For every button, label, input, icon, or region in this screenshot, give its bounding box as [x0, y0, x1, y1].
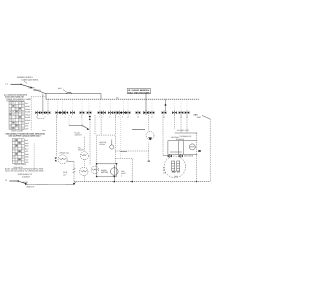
wire x82 drop	[81, 115, 83, 125]
node L1 terminal	[6, 82, 21, 85]
wire motor to rail	[114, 177, 116, 183]
connector P7	[70, 111, 75, 115]
wire drop to connector x174.5	[174, 99, 176, 111]
svg-text:COLOR CODE: COLOR CODE	[14, 163, 27, 166]
wire box feeds	[95, 115, 115, 135]
color code cell texture	[13, 140, 24, 163]
wire neutral rail main	[74, 181, 210, 183]
svg-text:SEE NOTE: SEE NOTE	[184, 154, 194, 157]
svg-text:2: 2	[45, 116, 46, 119]
svg-text:8: 8	[110, 116, 111, 119]
wire drop to connector x82	[81, 99, 83, 111]
connector P9	[87, 111, 92, 115]
motor top wires	[170, 152, 194, 157]
wire neutral rail left	[27, 183, 74, 185]
water valve label	[63, 169, 75, 177]
svg-text:RINSE: RINSE	[25, 111, 31, 114]
svg-text:12: 12	[163, 116, 165, 119]
connector P13	[114, 111, 119, 115]
wire drop to connector x152	[151, 99, 153, 111]
svg-text:RINSE: RINSE	[25, 116, 31, 119]
timer chart row labels	[25, 102, 31, 130]
wire drop to connector x57.8	[57, 99, 59, 111]
svg-text:MUST BE GROUNDED TO GREEN GND: MUST BE GROUNDED TO GREEN GND WIRE	[5, 170, 44, 173]
wire x120.8 drop	[120, 115, 122, 159]
ground mark right	[198, 150, 201, 152]
relay coil K1	[110, 140, 114, 150]
svg-text:10: 10	[127, 116, 129, 119]
svg-text:SWITCH: SWITCH	[26, 185, 34, 188]
heater circuit drops	[163, 115, 187, 156]
node N terminal	[5, 179, 18, 182]
svg-text:DOOR: DOOR	[22, 181, 29, 184]
heater sub box	[168, 141, 197, 155]
svg-text:FILL: FILL	[25, 102, 28, 105]
wire drop to connector x72.5	[72, 99, 74, 111]
wire neutral rail step	[74, 182, 76, 185]
wire right edge drop	[202, 116, 210, 182]
connector P26 inline	[89, 116, 91, 120]
wire drop to connector x187	[186, 99, 188, 111]
svg-text:OFF: OFF	[25, 127, 28, 130]
node L1 power supply cord label	[17, 76, 39, 84]
svg-text:DRAIN: DRAIN	[25, 119, 31, 122]
connector P6	[64, 111, 69, 115]
connector P16	[126, 111, 131, 115]
svg-text:7: 7	[103, 116, 104, 119]
float switch label	[75, 131, 83, 136]
connector P1	[35, 111, 40, 115]
node TB label	[116, 97, 119, 100]
connector P25	[179, 154, 183, 158]
timer label box U1	[127, 89, 150, 95]
thermostat labels	[171, 135, 192, 141]
wire drop to connector x89	[88, 99, 90, 111]
note text block top-left	[4, 94, 28, 99]
svg-text:SWITCH: SWITCH	[75, 134, 83, 137]
connector pin labels	[36, 116, 188, 119]
connector P20	[162, 111, 167, 115]
connector P3	[46, 111, 51, 115]
svg-text:USE COPPER CONDUCTORS ONLY: USE COPPER CONDUCTORS ONLY	[9, 134, 42, 137]
wire drop to connector x38	[42, 94, 44, 111]
motor run winding M2	[111, 165, 119, 178]
color code cell marks	[16, 139, 21, 160]
svg-text:INCREMENTS SHOWN: INCREMENTS SHOWN	[7, 100, 26, 103]
wire drop to connector x123.3	[122, 99, 124, 111]
svg-text:CABINET: CABINET	[22, 175, 31, 178]
color code row labels	[25, 139, 30, 164]
connector P12	[108, 111, 113, 115]
connector P22	[179, 111, 184, 115]
pump motor M3	[164, 156, 186, 178]
svg-text:HAS THIS FEATURE: HAS THIS FEATURE	[128, 91, 150, 94]
dispenser label line	[132, 129, 145, 131]
wire connector P1 tail	[38, 115, 44, 119]
mark y151.6	[120, 151, 127, 153]
wire drop to connector x46	[47, 99, 49, 111]
float switch S3	[69, 125, 89, 130]
wire color code table	[12, 139, 24, 164]
connector P14	[117, 111, 122, 115]
color code caption	[14, 163, 27, 169]
svg-text:YEL: YEL	[25, 150, 28, 153]
svg-text:MOT 1/3: MOT 1/3	[172, 170, 181, 173]
motor box inner	[96, 163, 118, 177]
wire fill valve to wash solenoid	[84, 159, 86, 167]
wire drop to connector x110.5	[110, 99, 112, 111]
note text bottom-left	[5, 167, 45, 178]
connector P27 drain	[55, 158, 57, 162]
svg-text:VALVE: VALVE	[78, 149, 84, 152]
wire drop to connector x128	[127, 99, 129, 111]
svg-text:GND: GND	[197, 116, 202, 119]
connector P10	[98, 111, 103, 115]
svg-text:7: 7	[99, 116, 100, 119]
connector P4	[56, 111, 61, 115]
thermal cutoff TCO	[66, 92, 72, 94]
thermal cutoff TCO label	[58, 87, 67, 92]
dispenser drop	[148, 115, 150, 132]
wire neutral bus	[46, 94, 199, 100]
svg-text:4: 4	[65, 116, 66, 119]
wire y158.7	[115, 158, 132, 160]
wire drop to connector x62.5	[62, 99, 64, 111]
connector P11	[101, 111, 106, 115]
wire right vertical	[196, 133, 197, 182]
svg-text:DRAIN: DRAIN	[25, 113, 31, 116]
svg-text:TIMER CHART: TIMER CHART	[11, 129, 24, 132]
heater text row	[177, 129, 190, 132]
wire drop to connector x181	[180, 99, 182, 111]
svg-text:MOTOR: MOTOR	[101, 171, 109, 174]
svg-text:11: 11	[151, 116, 153, 119]
connector P21	[172, 111, 177, 115]
wire to fill valve	[83, 137, 85, 151]
wire dispenser down	[148, 143, 150, 162]
wire drop junction x165.5	[165, 99, 167, 111]
connector P19	[150, 111, 155, 115]
connector P5	[60, 111, 65, 115]
wash solenoid L4	[80, 167, 88, 175]
drain solenoid L1	[58, 155, 67, 164]
relay label	[100, 141, 107, 146]
svg-text:HI-LIMIT STAT: HI-LIMIT STAT	[177, 129, 190, 132]
connector P8	[80, 111, 85, 115]
svg-text:1: 1	[36, 116, 37, 119]
timer sequence chart table	[9, 102, 24, 130]
timer chart cell texture	[10, 103, 24, 129]
svg-text:9: 9	[122, 116, 123, 119]
door switch S2 (neutral side)	[17, 180, 34, 188]
float switch drop	[68, 115, 70, 125]
warning text block	[6, 132, 46, 137]
wire relay to right	[115, 150, 148, 152]
timer chart header text	[6, 98, 32, 103]
svg-text:WHT: WHT	[25, 142, 29, 145]
connector P15	[121, 111, 126, 115]
svg-text:10: 10	[137, 116, 139, 119]
wire door switch to bus	[34, 89, 46, 93]
connector P18 (timer feed)	[143, 110, 148, 115]
wire timer box drop	[145, 94, 147, 111]
timer chart cell marks	[9, 105, 21, 129]
door switch S1	[20, 84, 41, 92]
connector P24	[168, 154, 172, 158]
wire ground route lower	[33, 144, 35, 173]
svg-text:DRAIN: DRAIN	[25, 108, 31, 111]
heater wire y133	[175, 132, 198, 134]
pump motor label	[172, 170, 181, 178]
motor label dark	[101, 169, 109, 174]
svg-text:DRAIN SOL: DRAIN SOL	[60, 152, 70, 155]
heater label right	[194, 113, 202, 119]
motor side text	[163, 167, 166, 175]
wire drain to rail	[67, 161, 75, 185]
wire ground route upper	[31, 97, 46, 131]
wire L1 bus	[46, 94, 101, 100]
connector P23	[185, 111, 190, 115]
motor relay box	[97, 135, 116, 164]
dispenser solenoid L3	[146, 132, 154, 141]
drain solenoid L1 label	[60, 152, 70, 155]
wire mid vertical x132	[131, 159, 133, 183]
thermostat T1	[189, 144, 195, 150]
timer chart caption	[11, 129, 24, 132]
wire drop to connector x100	[99, 99, 101, 111]
connector P2	[41, 111, 46, 115]
svg-text:HEAT: HEAT	[25, 122, 29, 125]
connector P17	[136, 111, 141, 115]
note text mid	[121, 170, 127, 177]
svg-text:9: 9	[118, 116, 119, 119]
svg-text:WASH: WASH	[25, 105, 31, 108]
svg-text:2: 2	[121, 174, 122, 177]
svg-text:5: 5	[71, 116, 72, 119]
wire drain solenoid drop	[56, 115, 58, 157]
wire x90 long drop	[89, 115, 91, 165]
svg-text:THERMOSTAT: THERMOSTAT	[179, 135, 192, 138]
wire label BLK left	[43, 129, 47, 132]
svg-text:RELAY: RELAY	[100, 143, 107, 146]
wire wash solenoid to rail	[84, 176, 86, 182]
fill valve label	[78, 147, 84, 152]
fill valve solenoid L2	[80, 152, 88, 160]
motor start winding M1	[91, 166, 99, 174]
